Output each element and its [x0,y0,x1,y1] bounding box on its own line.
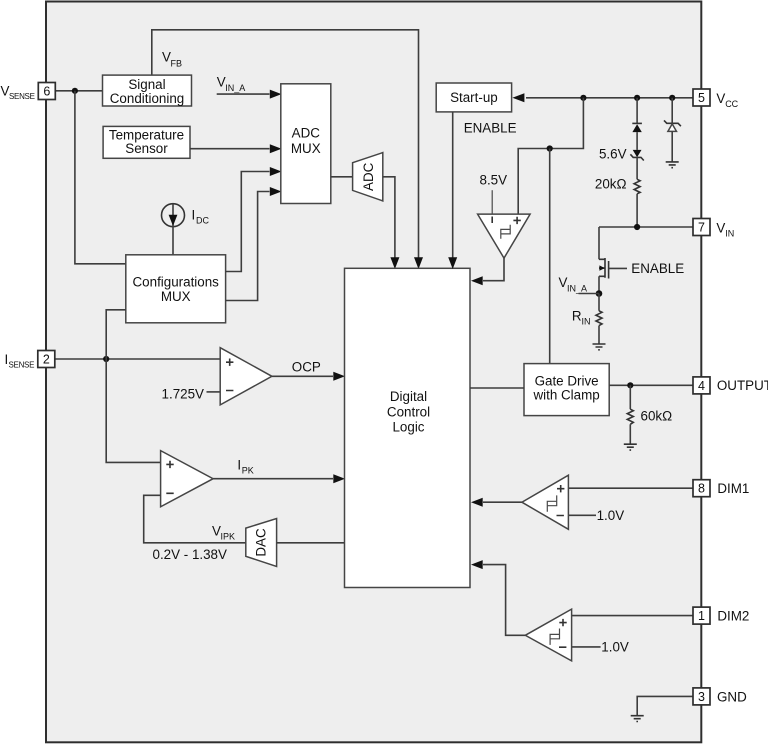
svg-text:Signal: Signal [128,77,165,92]
node junction VIN [634,224,640,230]
block ADC MUX [281,84,331,204]
node junction gate-drive supply [547,145,553,151]
wire DIM1 pin8 to comparator plus [568,487,693,489]
pin 7 [693,219,710,236]
svg-text:SENSE: SENSE [9,361,35,370]
wire VFB: Signal Conditioning top to Digital Control Logic top [152,30,419,258]
svg-text:60kΩ: 60kΩ [641,408,673,423]
wire VIN rail: pin7 to MOSFET drain [599,226,693,228]
svg-text:IN_A: IN_A [225,83,245,93]
wire 8.5V comparator output to DCL [483,258,504,281]
svg-text:IN_A: IN_A [567,284,587,294]
svg-text:V: V [716,221,725,236]
svg-text:ENABLE: ENABLE [631,261,684,276]
wire VSENSE pin6 to Signal Conditioning [55,90,103,92]
svg-text:CC: CC [725,99,738,109]
wire Temperature Sensor to ADC MUX [190,148,270,150]
svg-text:PK: PK [242,466,254,476]
svg-text:MUX: MUX [291,141,321,156]
resistor 20k [636,157,638,179]
svg-text:DC: DC [196,216,209,226]
wire ISENSE pin2 to OCP comparator [55,358,220,360]
ground under 60k [624,444,637,450]
svg-text:5: 5 [698,91,705,105]
svg-text:5.6V: 5.6V [599,147,627,162]
node junction VCC-c [669,95,675,101]
symbol hysteresis DIM1 [547,495,556,511]
wire VCC down to 8.5V comparator plus input [518,98,583,214]
wire ADC MUX to ADC [331,176,353,178]
pin 3 [693,688,710,705]
wire Gate Drive to OUTPUT pin4 [609,384,693,386]
node junction OUTPUT [627,382,633,388]
wire 8.5V reference stub [491,190,493,214]
wire GND pin3 to ground [637,696,693,715]
svg-text:I: I [237,457,241,472]
op-amp DIM1 comparator (points left) [522,475,569,529]
wire DCL to Gate Drive [470,387,524,389]
wire IPK output to DCL [213,478,333,480]
transistor Q1 enable MOSFET [598,227,600,259]
wire VIN_A into ADC MUX [217,93,270,95]
node junction VCC-b [634,95,640,101]
diode Z2 zener to ground [671,98,673,124]
wire DIM2 pin1 to comparator plus [572,615,693,617]
svg-text:2: 2 [43,353,50,367]
node VFB arrowhead into DCL [414,257,423,269]
op-amp IPK comparator [161,451,214,507]
block Configurations MUX [126,255,226,323]
svg-text:1.0V: 1.0V [597,508,625,523]
block Gate Drive with Clamp [524,364,609,416]
pin 4 [693,377,710,394]
svg-text:3: 3 [698,690,705,704]
wire ENABLE: Start-up bottom to DCL top [452,112,454,258]
node junction VIN_A [596,290,603,297]
svg-text:Sensor: Sensor [125,141,168,156]
svg-text:20kΩ: 20kΩ [595,177,627,192]
pin 5 [693,89,710,106]
resistor 60k [629,385,631,409]
wire DIM2 minus stub to 1.0V [572,646,601,648]
svg-text:DIM2: DIM2 [717,609,749,624]
wire VSENSE junction down to Configurations MUX [75,91,126,264]
svg-text:0.2V - 1.38V: 0.2V - 1.38V [153,547,228,562]
svg-text:1.725V: 1.725V [162,386,205,401]
svg-text:6: 6 [43,85,50,99]
svg-text:Gate Drive: Gate Drive [535,373,599,388]
node junction VCC-a [580,95,586,101]
block Signal Conditioning [103,75,192,106]
svg-text:Control: Control [387,404,430,419]
svg-text:4: 4 [698,379,705,393]
svg-text:R: R [572,309,582,324]
op-amp 8.5V comparator (points down) [478,214,530,258]
wire ISENSE junction up to Configurations MUX [106,310,126,359]
symbol hysteresis 8.5V comparator [501,225,510,239]
svg-text:Configurations: Configurations [133,275,220,290]
diode D1 (to VCC) [636,98,638,124]
current source IDC [162,204,185,227]
svg-text:ENABLE: ENABLE [464,121,517,136]
node junction ISENSE [103,356,109,362]
svg-text:Digital: Digital [390,389,427,404]
svg-text:Conditioning: Conditioning [110,91,184,106]
svg-text:IN: IN [725,229,734,239]
wire 1.725V stub to OCP minus [207,391,221,393]
pin 2 [38,351,55,368]
node junction VSENSE [72,88,78,94]
resistor RIN [598,294,600,311]
wire Configurations MUX to ADC MUX lower [226,192,270,301]
block Start-up [436,83,511,112]
svg-text:GND: GND [717,689,747,704]
svg-text:SENSE: SENSE [9,92,35,101]
wire VIN_A stub [579,293,600,295]
block Temperature Sensor [103,126,190,158]
svg-text:Start-up: Start-up [450,90,498,105]
op-amp OCP comparator [220,348,272,405]
svg-text:IPK: IPK [221,532,236,542]
svg-text:Logic: Logic [392,419,424,434]
svg-text:I: I [192,208,196,223]
diode Z1 zener 5.6V [636,132,638,150]
wire 20k to VIN rail [636,194,638,227]
wire supply down to Gate Drive top [549,149,551,365]
wire OCP output to DCL [272,375,333,377]
svg-text:MUX: MUX [161,289,191,304]
svg-text:OUTPUT: OUTPUT [717,378,768,393]
wire IPK minus to DAC output [144,495,246,543]
pin 8 [693,480,710,497]
svg-text:DIM1: DIM1 [717,481,749,496]
wire DIM2 output up to DCL [483,565,525,636]
svg-text:8: 8 [698,482,705,496]
ground under RIN [593,344,606,350]
converter DAC [246,519,277,567]
wire Configurations MUX to ADC MUX upper [226,172,270,272]
pin 1 [693,607,710,624]
op-amp DIM2 comparator (points left) [525,609,571,661]
svg-text:DAC: DAC [254,528,269,557]
svg-text:FB: FB [171,59,183,69]
svg-text:ADC: ADC [292,125,321,140]
ground at pin3 [631,716,644,722]
svg-text:1: 1 [698,609,705,623]
svg-text:OCP: OCP [292,360,321,375]
wire VCC rail: pin5 to Start-up [526,97,693,99]
svg-text:IN: IN [582,317,591,327]
wire DIM1 output to DCL [483,501,522,503]
svg-text:1.0V: 1.0V [601,640,629,655]
block Digital Control Logic [345,268,471,587]
pin 6 [38,83,55,100]
svg-text:V: V [716,91,725,106]
ground under Z2 [666,162,679,168]
wire DAC to DCL [277,542,345,544]
wire ISENSE junction down to IPK comparator [106,359,160,462]
wire DIM1 minus stub to 1.0V [568,514,596,516]
svg-text:ADC: ADC [361,162,376,191]
symbol hysteresis DIM2 [550,629,559,645]
svg-text:7: 7 [698,221,705,235]
svg-text:8.5V: 8.5V [480,173,508,188]
svg-text:with Clamp: with Clamp [532,388,599,403]
wire ADC to Digital Control Logic [383,177,395,258]
converter ADC [353,153,383,201]
